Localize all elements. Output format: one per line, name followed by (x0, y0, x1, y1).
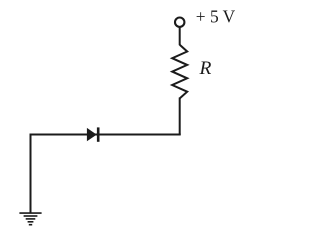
wire terminal to resistor (179, 28, 181, 46)
ground (19, 213, 41, 225)
svg-text:R: R (198, 58, 212, 79)
wire resistor to node corner (179, 98, 181, 135)
svg-text:+ 5 V: + 5 V (196, 7, 236, 27)
diode D1 (anode triangle) (87, 128, 97, 141)
wire horizontal node (anode-cathode run) (31, 134, 180, 136)
diode D1 cathode bar (97, 127, 100, 141)
wire left corner down to ground (30, 134, 32, 213)
terminal +5V (open circle) (175, 18, 184, 27)
resistor R (172, 45, 187, 99)
